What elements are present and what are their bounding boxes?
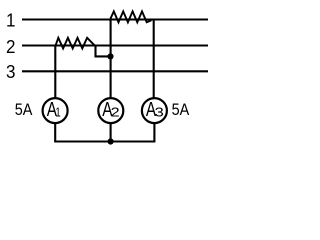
- svg-text:3: 3: [155, 106, 164, 120]
- ammeter A3: [142, 98, 167, 123]
- wire vertical line2 to A1: [54, 46, 56, 99]
- wire vertical line1 to A3: [153, 20, 155, 99]
- wire line 2: [22, 44, 208, 46]
- wire A3 bottom stub: [153, 123, 155, 141]
- wire A2 bottom stub: [110, 123, 112, 141]
- svg-text:2: 2: [6, 36, 15, 57]
- resistor R1: [110, 11, 152, 22]
- junction dot node A: [107, 53, 113, 59]
- wire bottom bus: [54, 140, 155, 142]
- svg-text:1: 1: [6, 10, 16, 31]
- svg-text:5A: 5A: [15, 101, 33, 119]
- wire A1 bottom stub: [54, 123, 56, 141]
- svg-text:3: 3: [6, 62, 16, 83]
- ammeter A2: [98, 98, 123, 123]
- svg-text:2: 2: [111, 106, 120, 120]
- svg-text:1: 1: [55, 106, 60, 120]
- junction dot node B: [108, 138, 114, 144]
- resistor R2: [55, 38, 95, 49]
- ammeter A1: [43, 98, 68, 123]
- svg-text:5A: 5A: [172, 101, 190, 119]
- wire line 1: [22, 18, 208, 20]
- wire R2 right terminal down to node: [96, 46, 111, 57]
- wire vertical line1 to A2: [110, 20, 112, 99]
- wire line 3: [22, 70, 208, 72]
